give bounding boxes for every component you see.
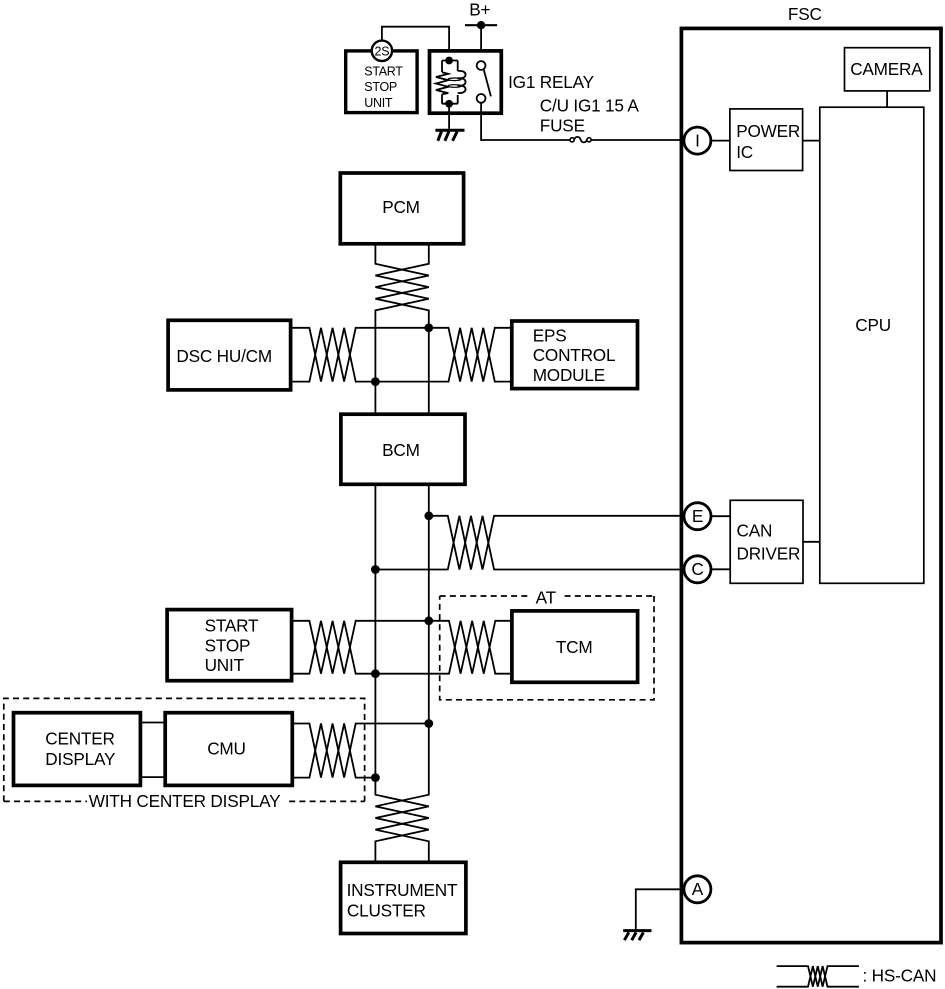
BCM box xyxy=(341,414,465,484)
svg-text:DISPLAY: DISPLAY xyxy=(45,749,116,769)
svg-text:CONTROL: CONTROL xyxy=(533,345,616,365)
junction dot row4 top xyxy=(424,719,433,728)
svg-text:BCM: BCM xyxy=(382,440,420,460)
twisted pair row START STOP UNIT to TCM (HS-CAN) xyxy=(292,621,512,674)
IG1 relay box xyxy=(430,51,502,113)
svg-text:PCM: PCM xyxy=(382,197,420,217)
svg-text:CENTER: CENTER xyxy=(45,728,114,748)
svg-text:START: START xyxy=(205,616,259,636)
svg-text:WITH CENTER DISPLAY: WITH CENTER DISPLAY xyxy=(89,791,281,811)
wire relay switch to fuse xyxy=(481,103,570,140)
junction dot row3 bottom xyxy=(371,669,380,678)
AT dashed box xyxy=(440,596,654,700)
wire B+ to relay switch xyxy=(480,25,482,61)
wire E to CAN DRIVER xyxy=(711,515,730,517)
wire C to CAN DRIVER xyxy=(711,568,730,570)
junction dot row2 top xyxy=(424,511,433,520)
svg-text:DRIVER: DRIVER xyxy=(737,543,801,563)
center display box xyxy=(14,713,141,786)
camera box xyxy=(845,48,930,91)
DSC HU/CM box xyxy=(168,320,291,390)
svg-text:STOP: STOP xyxy=(205,635,251,655)
wire CAN DRIVER to CPU xyxy=(803,541,820,543)
wire camera to CPU xyxy=(886,91,888,107)
relay coil windings xyxy=(458,71,466,93)
fuse C/U IG1 15A xyxy=(570,137,591,142)
relay coil zigzag xyxy=(436,72,448,94)
svg-text:IC: IC xyxy=(736,142,753,162)
svg-text:TCM: TCM xyxy=(556,637,593,657)
EPS control module box xyxy=(512,321,638,389)
relay switch blade xyxy=(484,69,491,96)
junction dot row1 top xyxy=(424,323,433,332)
svg-text:A: A xyxy=(692,879,704,899)
svg-text:FSC: FSC xyxy=(788,4,822,24)
CAN driver block xyxy=(730,500,803,583)
wire relay coil to ground xyxy=(448,108,450,129)
terminal E xyxy=(684,503,711,530)
CMU box xyxy=(165,713,292,786)
wire terminal A to ground xyxy=(636,889,684,929)
CPU block xyxy=(820,107,924,583)
svg-text:UNIT: UNIT xyxy=(364,96,393,110)
FSC enclosure box xyxy=(681,28,941,942)
junction dot row4 bottom xyxy=(371,773,380,782)
svg-text:B+: B+ xyxy=(469,0,490,19)
start stop unit (top) box xyxy=(346,51,417,113)
twisted pair bus to instrument cluster (HS-CAN) xyxy=(375,484,428,863)
twisted pair PCM to bus (HS-CAN) xyxy=(375,243,428,412)
TCM box xyxy=(512,611,638,682)
PCM box xyxy=(340,173,463,244)
ground (relay) xyxy=(435,130,464,141)
junction dot row1 bottom xyxy=(371,377,380,386)
svg-text:MODULE: MODULE xyxy=(533,365,605,385)
junction dot row3 top xyxy=(424,616,433,625)
svg-text:CLUSTER: CLUSTER xyxy=(347,900,426,920)
wire 2S to relay coil xyxy=(382,27,449,57)
svg-text:C: C xyxy=(691,559,703,579)
svg-text:POWER: POWER xyxy=(736,121,800,141)
svg-text:CMU: CMU xyxy=(207,738,246,758)
svg-text:FUSE: FUSE xyxy=(540,115,585,135)
B+ terminal dot xyxy=(477,21,485,29)
svg-text:2S: 2S xyxy=(375,44,390,58)
start stop unit (bottom) box xyxy=(167,610,292,681)
relay coil terminal dots xyxy=(445,57,453,65)
with center display dashed box xyxy=(4,698,365,801)
svg-text:I: I xyxy=(695,131,700,151)
junction dot row2 bottom xyxy=(371,565,380,574)
terminal 2S xyxy=(372,41,392,61)
svg-text:START: START xyxy=(364,65,403,79)
wire POWER IC to CPU xyxy=(803,140,820,142)
twisted pair CMU to bus (HS-CAN) xyxy=(292,724,429,778)
svg-text:CPU: CPU xyxy=(855,315,891,335)
svg-text:STOP: STOP xyxy=(364,80,397,94)
terminal C xyxy=(684,556,711,583)
svg-text:C/U IG1 15 A: C/U IG1 15 A xyxy=(540,95,640,115)
svg-text:: HS-CAN: : HS-CAN xyxy=(863,966,937,986)
ground (FSC) xyxy=(623,931,651,941)
svg-text:UNIT: UNIT xyxy=(205,655,245,675)
power IC block xyxy=(730,109,803,171)
wire fuse to terminal I xyxy=(591,139,684,141)
svg-text:E: E xyxy=(692,506,703,526)
twisted pair row DSC HU/CM to EPS (HS-CAN) xyxy=(292,328,512,382)
svg-text:AT: AT xyxy=(536,587,557,607)
svg-text:EPS: EPS xyxy=(533,325,567,345)
B+ terminal bar xyxy=(465,24,497,26)
wire I to POWER IC xyxy=(711,140,730,142)
terminal A xyxy=(684,876,711,903)
relay coil outline xyxy=(442,61,458,104)
instrument cluster box xyxy=(341,862,466,933)
legend twisted pair symbol xyxy=(777,966,859,987)
svg-text:CAN: CAN xyxy=(737,521,773,541)
wires center display to CMU xyxy=(140,723,165,778)
svg-text:CAMERA: CAMERA xyxy=(850,59,923,79)
svg-text:IG1 RELAY: IG1 RELAY xyxy=(508,72,595,92)
relay switch contacts xyxy=(477,61,486,70)
svg-text:DSC HU/CM: DSC HU/CM xyxy=(176,346,272,366)
terminal I xyxy=(684,127,711,154)
twisted pair bus to E/C terminals (HS-CAN) xyxy=(429,516,684,570)
svg-text:INSTRUMENT: INSTRUMENT xyxy=(347,880,458,900)
